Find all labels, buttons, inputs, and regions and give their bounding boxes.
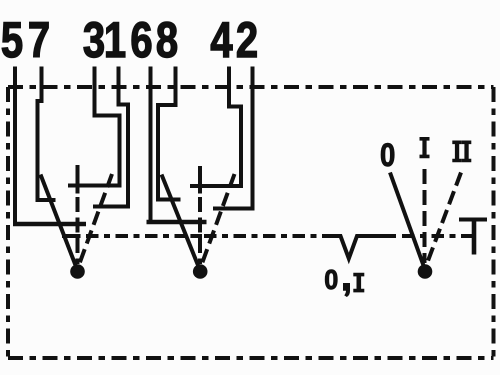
svg-text:1: 1 bbox=[104, 12, 126, 68]
svg-text:5: 5 bbox=[1, 12, 23, 68]
svg-text:7: 7 bbox=[28, 12, 50, 68]
svg-text:2: 2 bbox=[236, 12, 258, 68]
svg-text:3: 3 bbox=[83, 12, 105, 68]
svg-text:4: 4 bbox=[210, 12, 232, 68]
svg-text:0: 0 bbox=[380, 138, 395, 173]
svg-text:6: 6 bbox=[130, 12, 152, 68]
svg-text:0: 0 bbox=[324, 264, 338, 296]
svg-text:8: 8 bbox=[156, 12, 178, 68]
